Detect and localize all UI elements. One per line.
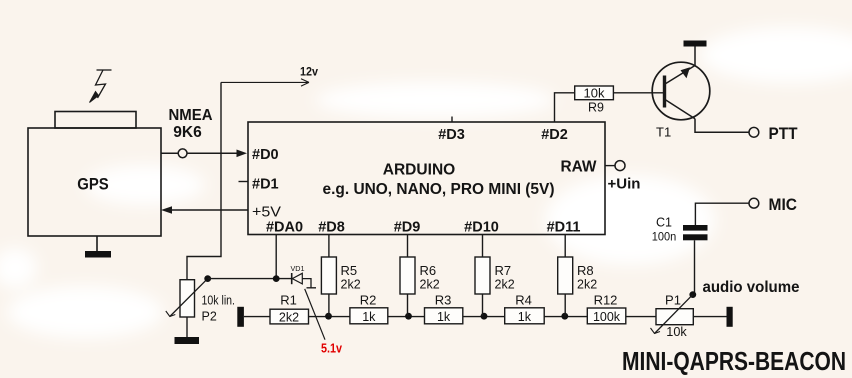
node 2 [405, 313, 412, 320]
wire R7 to node3 [482, 294, 484, 316]
svg-text:R9: R9 [588, 101, 604, 115]
svg-text:12v: 12v [300, 65, 318, 79]
svg-text:2k2: 2k2 [495, 278, 515, 292]
wire #D11 to R8 [564, 235, 566, 258]
wire #D2 to R9 [555, 93, 575, 122]
svg-text:R7: R7 [495, 263, 512, 278]
svg-text:audio volume: audio volume [703, 279, 800, 296]
wire GPS TX to #D0 [161, 152, 238, 154]
resistor R9 [575, 86, 614, 100]
svg-text:GPS: GPS [77, 175, 109, 194]
svg-text:ARDUINO: ARDUINO [383, 162, 456, 179]
node NMEA (open circle) [178, 149, 187, 158]
wire 12v arrow [221, 79, 309, 86]
left audio terminal bar [237, 307, 244, 327]
svg-text:RAW: RAW [561, 159, 598, 176]
GPS module box [28, 112, 161, 237]
svg-text:MINI-QAPRS-BEACON: MINI-QAPRS-BEACON [622, 348, 846, 376]
svg-text:2k2: 2k2 [279, 310, 299, 324]
svg-text:2k2: 2k2 [420, 278, 440, 292]
wire R4 to node4 [544, 316, 587, 318]
svg-text:C1: C1 [656, 216, 672, 230]
svg-text:R5: R5 [341, 263, 358, 278]
svg-text:2k2: 2k2 [341, 278, 361, 292]
wire R8 to node4 [564, 294, 566, 316]
capacitor C1 [652, 216, 708, 244]
wire #D9 to R6 [407, 235, 409, 258]
ground (GPS) [96, 236, 98, 251]
wire #D8 to R5 [328, 235, 330, 258]
svg-text:#D3: #D3 [438, 127, 465, 143]
potentiometer P1 [651, 293, 694, 340]
svg-text:2k2: 2k2 [577, 278, 597, 292]
svg-text:T1: T1 [656, 125, 671, 140]
svg-text:PTT: PTT [769, 124, 799, 143]
svg-text:P2: P2 [202, 310, 217, 324]
resistor R3 [425, 308, 463, 324]
diode VD1 (zener 5.1v) [291, 264, 317, 288]
node 3 [481, 313, 488, 320]
leader line to 5.1v [305, 289, 325, 340]
wire P1 to right terminal [693, 316, 726, 318]
svg-text:10k: 10k [584, 86, 605, 101]
wire C1 to P1 wiper node [694, 240, 696, 294]
svg-text:P1: P1 [665, 293, 681, 308]
svg-text:#D2: #D2 [541, 127, 568, 143]
resistor R1 [270, 309, 309, 324]
wire emitter to PTT [695, 119, 749, 133]
svg-text:MIC: MIC [769, 195, 798, 214]
svg-text:#D10: #D10 [464, 219, 499, 235]
svg-text:R6: R6 [420, 263, 437, 278]
resistor R6 [400, 257, 415, 294]
svg-text:9K6: 9K6 [173, 124, 202, 141]
pin #D1 stub [239, 181, 249, 183]
svg-text:R8: R8 [577, 263, 594, 278]
antenna (lightning arrow) [96, 70, 112, 98]
pin #D3 stub [451, 117, 453, 123]
svg-text:+5V: +5V [252, 205, 281, 221]
svg-text:#D8: #D8 [318, 219, 345, 235]
svg-text:5.1v: 5.1v [321, 341, 343, 356]
svg-text:#D9: #D9 [394, 219, 421, 235]
svg-text:100k: 100k [593, 310, 621, 324]
wire R2 to node2 [388, 316, 425, 318]
terminal MIC [749, 198, 759, 208]
wire R9 to base [613, 92, 663, 94]
svg-text:1k: 1k [518, 310, 532, 324]
svg-text:#D0: #D0 [252, 147, 279, 163]
Arduino U1 box [248, 122, 605, 235]
wire R12 to P1 [626, 316, 656, 318]
resistor R2 [350, 308, 388, 324]
resistor R5 [321, 257, 336, 294]
node audio (junction dot) [689, 291, 696, 298]
svg-text:VD1: VD1 [291, 264, 305, 273]
svg-text:NMEA: NMEA [169, 107, 213, 124]
pin RAW stub + terminal [605, 165, 615, 167]
wire terminal to R1 [244, 316, 270, 318]
node DA0 junction [273, 275, 280, 282]
svg-text:R4: R4 [515, 293, 532, 308]
wire 12v feed (vertical) [187, 82, 221, 279]
wire collector to supply bar [694, 47, 696, 66]
node P2 wiper [204, 275, 211, 282]
svg-text:R2: R2 [360, 293, 377, 308]
svg-text:1k: 1k [362, 310, 376, 324]
wire R6 to node2 [407, 294, 409, 316]
potentiometer P2 [166, 279, 235, 324]
svg-text:R3: R3 [435, 293, 452, 308]
wire R3 to node3 [463, 316, 505, 318]
wire #DA0 down [275, 235, 277, 279]
svg-text:100n: 100n [652, 230, 677, 244]
svg-text:e.g. UNO, NANO, PRO MINI (5V): e.g. UNO, NANO, PRO MINI (5V) [323, 181, 555, 198]
wire MIC to C1 [695, 203, 749, 225]
svg-text:1k: 1k [437, 310, 451, 324]
terminal PTT [749, 127, 759, 137]
svg-text:#DA0: #DA0 [266, 219, 303, 235]
resistor R8 [558, 257, 573, 294]
supply rail bar [684, 41, 707, 47]
node 4 [561, 313, 568, 320]
resistor R4 [505, 308, 545, 324]
svg-text:10k: 10k [666, 325, 687, 339]
right audio terminal bar [727, 307, 733, 327]
svg-text:+Uin: +Uin [608, 176, 641, 193]
wire R1 to node1 [309, 316, 350, 318]
svg-text:#D11: #D11 [547, 219, 581, 235]
svg-text:10k lin.: 10k lin. [202, 294, 236, 308]
transistor T1 [652, 62, 710, 139]
resistor R12 [587, 308, 626, 324]
wire P2 bottom to ground [186, 317, 188, 337]
svg-text:#D1: #D1 [252, 177, 279, 193]
wire R5 to node1 [328, 294, 330, 316]
wire wiper to #DA0 and VD1 [208, 278, 291, 280]
wire #D10 to R7 [482, 235, 484, 258]
svg-text:R1: R1 [280, 293, 297, 308]
node 1 [325, 313, 332, 320]
svg-text:R12: R12 [594, 293, 618, 308]
resistor R7 [475, 257, 490, 294]
wire +5V to GPS (arrow into GPS) [171, 209, 248, 211]
ground (P2) [175, 337, 200, 344]
